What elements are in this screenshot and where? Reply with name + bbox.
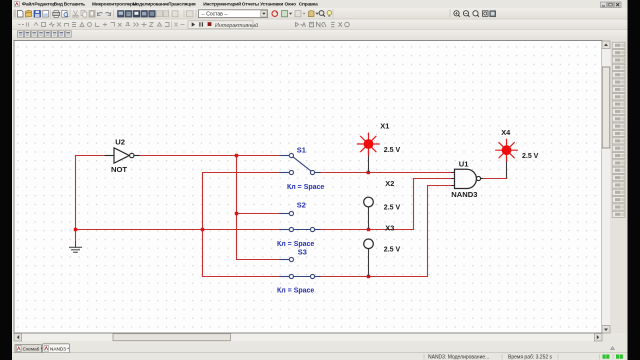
svg-text:U2: U2 — [115, 137, 125, 146]
wire S1 lower terminal to left — [203, 172, 281, 174]
junction node X3 — [367, 275, 370, 278]
wire S1 common to NAND input 1 — [320, 172, 452, 174]
switch S1 (lever up, closed to upper contact) — [280, 153, 320, 174]
wire NAND output to X4 — [483, 178, 507, 180]
svg-text:NAND3 *: NAND3 * — [50, 347, 69, 352]
svg-text:X2: X2 — [385, 179, 394, 188]
svg-text:S3: S3 — [298, 248, 307, 257]
copy icon (disabled) — [81, 11, 87, 18]
svg-text:Время раб: 3.252 s: Время раб: 3.252 s — [508, 355, 553, 360]
svg-text:Кл = Space: Кл = Space — [277, 288, 314, 295]
redo icon — [106, 12, 111, 15]
svg-text:Справка: Справка — [299, 2, 318, 8]
wire S3 lower terminal to left — [203, 276, 281, 278]
junction node at NOT output / S-branch — [235, 154, 238, 157]
help lightbulb icon — [327, 11, 332, 17]
VERTICAL SCROLLBAR — [602, 41, 610, 333]
junction node X2 — [367, 228, 370, 231]
wire S3 common to NAND input 3 — [320, 186, 452, 277]
play button — [192, 22, 195, 27]
new file icon — [18, 11, 24, 18]
svg-text:X3: X3 — [385, 224, 394, 233]
probe X4 (lit lamp) — [496, 139, 518, 177]
pause button — [200, 22, 203, 26]
TOOLBAR ROW 4 — [12, 30, 628, 41]
components combo box "-- Состав --" — [199, 10, 268, 18]
window control buttons — [601, 2, 622, 8]
probe X3 (unlit) — [364, 239, 374, 275]
svg-text:Инструментарий: Инструментарий — [203, 1, 241, 8]
svg-text:Вид: Вид — [54, 2, 63, 8]
wire vertical S1 lower to S3 lower (ground net) — [202, 173, 204, 277]
junction node X1 — [367, 171, 370, 174]
junction node ground wire left — [74, 228, 77, 231]
stop button (red) — [208, 22, 212, 26]
switch S3 (lever down, closed to lower contact) — [280, 257, 320, 278]
svg-text:Моделирование: Моделирование — [133, 2, 170, 8]
svg-text:Микроконтроллеры: Микроконтроллеры — [92, 2, 137, 8]
probe X1 (lit lamp) — [358, 133, 380, 171]
nand-gate U1 NAND3 — [452, 169, 483, 188]
wire S3 upper terminal branch — [237, 259, 281, 261]
svg-text:NAND3: NAND3 — [451, 190, 477, 199]
analysis icons group — [296, 22, 350, 27]
RIGHT COMPONENT TOOLBAR — [611, 41, 628, 333]
save floppy icon — [34, 11, 41, 18]
zoom toolbar — [454, 11, 496, 17]
junction node ground wire / S-lower vertical — [201, 228, 204, 231]
TOOLBAR ROW 3 — [12, 20, 628, 31]
simulation control toolbar — [188, 21, 258, 29]
svg-text:Кл = Space: Кл = Space — [287, 184, 324, 191]
undo icon — [97, 12, 102, 15]
svg-text:Интерактивный: Интерактивный — [215, 22, 258, 29]
print preview icon — [62, 10, 68, 17]
paste icon (disabled) — [89, 11, 95, 18]
wire NOT output to S1 upper terminal — [139, 155, 280, 157]
database icon with dropdown — [282, 11, 293, 17]
wire S2 upper terminal branch — [237, 213, 281, 215]
svg-text:2.5 V: 2.5 V — [384, 147, 401, 154]
svg-text:Файл: Файл — [22, 1, 34, 8]
folder icon with dropdown — [309, 11, 319, 17]
svg-text:-- Состав --: -- Состав -- — [202, 11, 228, 17]
CANVAS with dot grid — [14, 41, 602, 334]
svg-text:X4: X4 — [501, 128, 511, 137]
TAB BAR — [12, 342, 628, 354]
svg-text:S2: S2 — [297, 201, 306, 210]
svg-text:2.5 V: 2.5 V — [384, 204, 401, 211]
svg-text:Отчеты: Отчеты — [242, 2, 259, 8]
black side bars on top — [0, 0, 12, 360]
svg-text:Редактор: Редактор — [34, 2, 55, 8]
probe X2 (unlit) — [364, 197, 374, 228]
junction node S2 upper branch — [235, 212, 238, 215]
svg-text:Установки: Установки — [260, 2, 283, 8]
wire left vertical (NOT input to ground) — [75, 156, 77, 244]
wire S2 common to NAND input 2 — [320, 179, 452, 230]
wire NOT input — [76, 155, 106, 157]
print icon — [53, 11, 60, 18]
svg-text:2.5 V: 2.5 V — [522, 153, 539, 160]
disabled icon with dropdown — [295, 11, 306, 17]
HORIZONTAL SCROLLBAR — [14, 334, 602, 342]
open folder icon — [26, 10, 32, 17]
switch S2 (lever down, closed to lower contact) — [280, 211, 320, 231]
TOOLBAR ROW 2 — [12, 8, 628, 39]
wire ground-net horizontal to S2 lower terminal — [76, 229, 281, 231]
wire vertical from NOT output junction to S2/S3 upper terminals — [236, 156, 238, 260]
disabled icons before combo — [172, 11, 193, 17]
refresh icon (red) — [272, 11, 278, 17]
svg-text:Окно: Окно — [285, 2, 297, 8]
view toolbar icon group (dark squares) — [118, 11, 169, 18]
svg-text:U1: U1 — [459, 159, 469, 168]
svg-text:Схема6 *: Схема6 * — [23, 347, 43, 352]
svg-text:Вставить: Вставить — [64, 2, 85, 8]
ground symbol — [70, 242, 82, 252]
svg-text:Кл = Space: Кл = Space — [277, 241, 314, 248]
STATUS BAR — [12, 347, 628, 360]
svg-text:Трансляция: Трансляция — [169, 2, 196, 8]
op NOT gate U2 — [105, 148, 139, 163]
svg-text:2.5 V: 2.5 V — [384, 247, 401, 254]
cut icon (disabled) — [73, 11, 79, 18]
find icon — [319, 11, 325, 17]
svg-text:S1: S1 — [297, 145, 306, 154]
svg-text:NAND3: Моделирование...: NAND3: Моделирование... — [428, 355, 489, 360]
component place icons (greyed) — [19, 22, 170, 27]
svg-text:NOT: NOT — [111, 165, 127, 174]
export image icon — [43, 11, 49, 18]
MENU BAR — [12, 0, 628, 8]
svg-text:X1: X1 — [380, 122, 389, 131]
